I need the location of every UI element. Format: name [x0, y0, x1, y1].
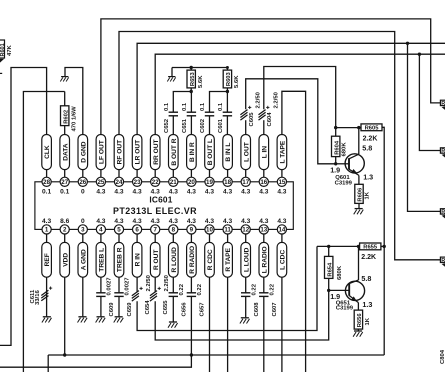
svg-text:L CDC: L CDC	[280, 250, 287, 270]
svg-text:14: 14	[278, 227, 285, 234]
svg-text:20: 20	[188, 179, 195, 186]
svg-text:4.3: 4.3	[169, 189, 178, 196]
svg-text:0: 0	[81, 218, 85, 225]
svg-text:R6: R6	[441, 258, 445, 264]
svg-text:4.3: 4.3	[259, 218, 268, 225]
svg-text:15: 15	[278, 179, 285, 186]
svg-text:0.22: 0.22	[252, 283, 258, 295]
svg-text:28: 28	[43, 179, 50, 186]
svg-text:4.3: 4.3	[223, 218, 232, 225]
svg-text:R655: R655	[363, 245, 378, 251]
svg-text:R LOUD: R LOUD	[171, 247, 178, 273]
svg-text:C652: C652	[164, 118, 170, 133]
svg-text:0.22: 0.22	[270, 283, 276, 295]
svg-text:5: 5	[117, 227, 121, 234]
svg-text:4.3: 4.3	[114, 189, 123, 196]
svg-text:LR OUT: LR OUT	[135, 140, 142, 165]
svg-text:4.3: 4.3	[241, 189, 250, 196]
svg-text:R6: R6	[441, 210, 445, 216]
svg-text:R656: R656	[357, 313, 363, 328]
svg-text:R OUT: R OUT	[153, 250, 160, 271]
svg-text:1.9: 1.9	[330, 165, 340, 174]
svg-text:5.8: 5.8	[361, 274, 371, 283]
svg-text:4.3: 4.3	[205, 189, 214, 196]
svg-text:24: 24	[116, 179, 123, 186]
svg-text:11: 11	[224, 227, 231, 234]
svg-text:2.2K: 2.2K	[363, 135, 378, 142]
svg-text:4.3: 4.3	[187, 189, 196, 196]
svg-text:A GND: A GND	[80, 249, 87, 270]
svg-text:B IN L: B IN L	[225, 143, 232, 162]
svg-text:6: 6	[135, 227, 139, 234]
svg-text:4.3: 4.3	[133, 218, 142, 225]
svg-text:L IN: L IN	[261, 146, 268, 159]
svg-text:C607: C607	[272, 302, 278, 317]
svg-text:17: 17	[242, 179, 249, 186]
svg-text:470 1/6W: 470 1/6W	[72, 106, 78, 132]
svg-text:0.1: 0.1	[42, 189, 51, 196]
svg-text:DATA: DATA	[62, 143, 69, 161]
svg-text:RF OUT: RF OUT	[117, 140, 124, 165]
svg-text:C3199: C3199	[335, 180, 353, 186]
svg-text:C657: C657	[200, 302, 206, 317]
svg-text:C605: C605	[249, 112, 255, 127]
svg-text:26: 26	[79, 179, 86, 186]
svg-text:0.0027: 0.0027	[125, 277, 131, 296]
svg-text:13: 13	[260, 227, 267, 234]
svg-text:REF: REF	[44, 253, 51, 266]
svg-text:2.2/50: 2.2/50	[146, 274, 152, 291]
svg-text:25: 25	[97, 179, 104, 186]
svg-text:4.3: 4.3	[169, 218, 178, 225]
svg-text:4.3: 4.3	[277, 218, 286, 225]
svg-text:IC601: IC601	[149, 194, 172, 204]
svg-text:R606: R606	[358, 187, 364, 202]
svg-text:3: 3	[81, 227, 85, 234]
svg-text:8.6: 8.6	[60, 218, 69, 225]
svg-text:4.3: 4.3	[114, 218, 123, 225]
svg-text:C804: C804	[440, 349, 445, 364]
svg-text:L TAPE: L TAPE	[280, 140, 287, 163]
svg-text:16: 16	[260, 179, 267, 186]
svg-text:C654: C654	[145, 300, 151, 315]
svg-text:1.3: 1.3	[363, 173, 373, 182]
svg-text:VDD: VDD	[62, 253, 69, 267]
svg-text:0.1: 0.1	[182, 102, 188, 111]
svg-text:21: 21	[170, 179, 177, 186]
svg-text:2.2/50: 2.2/50	[255, 91, 261, 108]
svg-text:L RADIO: L RADIO	[261, 246, 268, 273]
svg-text:R653: R653	[190, 71, 196, 86]
svg-text:RR OUT: RR OUT	[153, 139, 160, 164]
svg-text:12: 12	[242, 227, 249, 234]
svg-text:9: 9	[190, 227, 194, 234]
svg-text:19: 19	[206, 179, 213, 186]
svg-text:4.3: 4.3	[151, 189, 160, 196]
svg-text:C602: C602	[200, 118, 206, 133]
svg-text:TREB R: TREB R	[117, 247, 124, 272]
svg-text:R654: R654	[327, 262, 333, 277]
svg-text:0.1: 0.1	[164, 102, 170, 111]
svg-text:C659: C659	[127, 302, 133, 317]
svg-text:8: 8	[172, 227, 176, 234]
svg-text:4.3: 4.3	[241, 218, 250, 225]
svg-text:0: 0	[81, 189, 85, 196]
svg-text:R602: R602	[63, 110, 69, 124]
svg-text:2.2/50: 2.2/50	[273, 91, 279, 108]
svg-text:2.2/50: 2.2/50	[164, 274, 170, 291]
svg-text:1.3: 1.3	[362, 300, 372, 309]
svg-text:5.6K: 5.6K	[198, 75, 204, 88]
svg-text:23: 23	[134, 179, 141, 186]
svg-text:R6: R6	[441, 149, 445, 155]
svg-text:B IN R: B IN R	[189, 142, 196, 162]
svg-text:C3199: C3199	[336, 306, 354, 312]
svg-text:10: 10	[206, 227, 213, 234]
svg-text:33/16: 33/16	[35, 290, 41, 305]
svg-text:R RADIO: R RADIO	[189, 246, 196, 274]
svg-text:D GND: D GND	[80, 141, 87, 162]
svg-text:TREB L: TREB L	[99, 248, 106, 272]
svg-text:680K: 680K	[341, 142, 347, 157]
svg-text:R TAPE: R TAPE	[225, 247, 232, 271]
svg-text:5.6K: 5.6K	[234, 75, 240, 88]
svg-text:C609: C609	[109, 302, 115, 317]
svg-text:C655: C655	[163, 300, 169, 315]
svg-text:27: 27	[61, 179, 68, 186]
svg-text:R604: R604	[334, 140, 340, 155]
svg-text:L LOUD: L LOUD	[243, 247, 250, 272]
svg-text:2: 2	[63, 227, 67, 234]
svg-text:0.1: 0.1	[218, 102, 224, 111]
svg-text:B OUT L: B OUT L	[207, 139, 214, 165]
svg-text:4.3: 4.3	[42, 218, 51, 225]
svg-text:4.3: 4.3	[151, 218, 160, 225]
svg-text:R CDC: R CDC	[207, 249, 214, 270]
svg-text:0.0027: 0.0027	[107, 277, 113, 296]
svg-text:0.1: 0.1	[200, 102, 206, 111]
svg-text:4.3: 4.3	[223, 189, 232, 196]
svg-text:4.3: 4.3	[96, 189, 105, 196]
svg-text:2.2K: 2.2K	[361, 254, 376, 261]
svg-text:L OUT: L OUT	[243, 142, 250, 162]
svg-text:0.22: 0.22	[197, 283, 203, 295]
svg-text:4.3: 4.3	[259, 189, 268, 196]
svg-text:C651: C651	[182, 118, 188, 133]
svg-text:7: 7	[153, 227, 157, 234]
svg-text:PT2313L ELEC.VR: PT2313L ELEC.VR	[113, 206, 197, 216]
svg-text:C601: C601	[218, 118, 224, 133]
svg-text:4.3: 4.3	[133, 189, 142, 196]
svg-text:1: 1	[45, 227, 49, 234]
svg-text:1K: 1K	[365, 191, 371, 199]
svg-text:22: 22	[152, 179, 159, 186]
svg-text:CLK: CLK	[44, 145, 51, 159]
svg-text:0.22: 0.22	[179, 283, 185, 295]
svg-text:4.3: 4.3	[205, 218, 214, 225]
svg-text:C604: C604	[267, 112, 273, 127]
svg-text:4.3: 4.3	[277, 189, 286, 196]
svg-text:680K: 680K	[337, 265, 343, 280]
svg-text:C656: C656	[182, 302, 188, 317]
svg-text:47K: 47K	[7, 44, 13, 56]
svg-text:C608: C608	[254, 302, 260, 317]
svg-text:R603: R603	[226, 71, 232, 86]
svg-text:1K: 1K	[365, 317, 371, 325]
svg-text:0.1: 0.1	[60, 189, 69, 196]
svg-text:LF OUT: LF OUT	[99, 140, 106, 164]
svg-text:R605: R605	[365, 126, 380, 132]
svg-text:R6: R6	[441, 101, 445, 107]
svg-text:R IN: R IN	[135, 253, 142, 266]
svg-text:4: 4	[99, 227, 103, 234]
svg-text:4.3: 4.3	[96, 218, 105, 225]
svg-text:R601: R601	[0, 43, 6, 56]
svg-text:B OUT R: B OUT R	[171, 138, 178, 165]
svg-text:5.8: 5.8	[362, 144, 372, 153]
svg-text:18: 18	[224, 179, 231, 186]
svg-text:4.3: 4.3	[187, 218, 196, 225]
